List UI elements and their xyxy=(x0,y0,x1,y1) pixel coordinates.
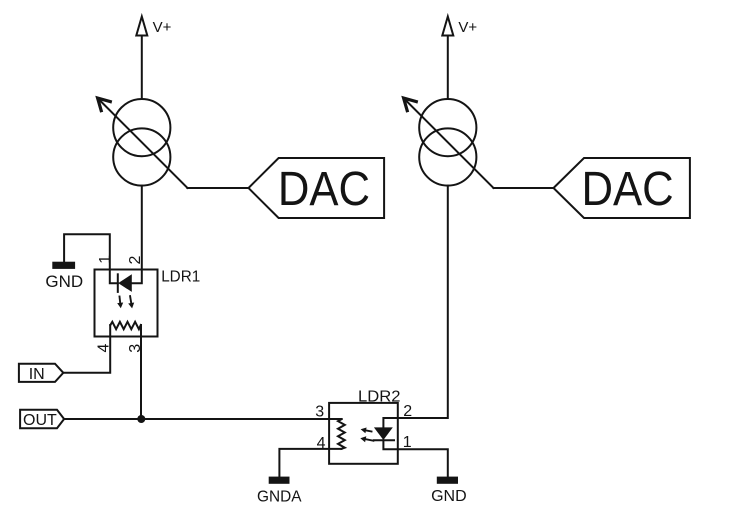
LDR2 photoresistor xyxy=(338,419,345,449)
LDR2 light arrows xyxy=(360,428,373,443)
LDR1 light arrows xyxy=(117,296,134,308)
wire LDR2 pin 1 to GND right xyxy=(383,440,447,476)
adjustment arrow through I1 xyxy=(98,98,188,188)
svg-text:DAC: DAC xyxy=(582,162,674,216)
junction node OUT xyxy=(137,415,145,423)
ground GND right xyxy=(437,477,458,484)
svg-text:2: 2 xyxy=(127,256,144,265)
wire I2 to LDR2 pin 2 (LED anode) xyxy=(383,186,447,428)
svg-text:DAC: DAC xyxy=(278,162,370,216)
power symbol V+ right xyxy=(442,17,453,36)
svg-text:OUT: OUT xyxy=(23,412,57,429)
LDR1 photoresistor xyxy=(110,322,140,329)
svg-text:LDR2: LDR2 xyxy=(358,388,401,405)
wire OUT line to LDR2 pin 3 xyxy=(64,418,342,420)
wire LDR1 pin 4 to IN tag xyxy=(63,325,110,373)
svg-text:3: 3 xyxy=(315,404,324,421)
DAC tag 2 xyxy=(554,158,690,218)
LDR1 LED xyxy=(118,274,132,292)
svg-text:LDR1: LDR1 xyxy=(161,268,200,285)
power symbol V+ left xyxy=(136,17,147,36)
optocoupler LDR2 body xyxy=(329,403,398,464)
svg-text:IN: IN xyxy=(29,366,45,383)
svg-text:GND: GND xyxy=(431,488,467,505)
adjustment arrow through I2 xyxy=(404,98,494,188)
wire V+ to current source I1 xyxy=(141,36,143,100)
ground GND left xyxy=(52,262,75,269)
wire LDR1 pin 3 to OUT node xyxy=(140,325,142,419)
wire V+ to current source I2 xyxy=(447,36,449,100)
LDR2 LED xyxy=(374,427,394,440)
svg-text:V+: V+ xyxy=(458,19,477,36)
optocoupler LDR1 body xyxy=(95,270,158,337)
wire LDR2 pin 4 to GNDA xyxy=(279,449,341,477)
svg-text:GNDA: GNDA xyxy=(257,488,302,505)
tag IN xyxy=(19,364,63,382)
DAC tag 1 xyxy=(249,158,385,218)
svg-text:GND: GND xyxy=(45,272,83,291)
wire I1 arrow to DAC tag 1 xyxy=(187,187,248,189)
wire LDR1 pin 1 to GND xyxy=(64,234,118,283)
svg-text:2: 2 xyxy=(403,403,412,420)
tag OUT xyxy=(20,410,64,428)
svg-text:1: 1 xyxy=(97,255,114,264)
svg-text:V+: V+ xyxy=(153,19,172,36)
wire I2 arrow to DAC tag 2 xyxy=(494,187,554,189)
current source I2 xyxy=(419,99,476,186)
current source I1 xyxy=(113,99,170,186)
wire I1 to LDR1 pin 2 (LED anode) xyxy=(132,186,142,284)
ground GNDA xyxy=(269,477,290,484)
